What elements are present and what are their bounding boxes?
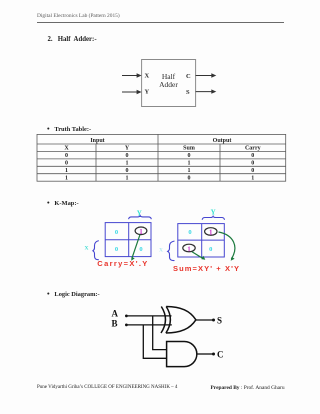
- svg-text:1: 1: [126, 175, 129, 181]
- svg-text:S: S: [186, 89, 190, 96]
- svg-text:Y: Y: [125, 146, 130, 152]
- wire B branch to AND bottom input: [143, 325, 167, 358]
- logic diagram: [105, 303, 230, 373]
- sum group ellipse top-right: [205, 228, 217, 236]
- svg-text:0: 0: [209, 246, 212, 253]
- sum k-map grid: [178, 224, 225, 257]
- AND gate U2: [167, 342, 197, 367]
- output arrow C: [196, 73, 217, 77]
- svg-text:0: 0: [188, 175, 191, 181]
- sum top brace: [202, 216, 224, 220]
- svg-text:Sum=XY' + X'Y: Sum=XY' + X'Y: [173, 264, 240, 273]
- svg-text:0: 0: [188, 229, 191, 236]
- sum cell values: [187, 228, 213, 253]
- svg-text:Carry: Carry: [245, 146, 261, 152]
- svg-text:X: X: [159, 248, 163, 254]
- svg-text:0: 0: [65, 153, 68, 159]
- input arrow X: [122, 73, 142, 77]
- carry group ellipse: [135, 227, 147, 235]
- truth table: [36, 133, 287, 183]
- block diagram: [105, 52, 230, 112]
- svg-text:C: C: [217, 350, 224, 360]
- carry k-map grid: [105, 223, 151, 257]
- wire A branch to AND top input: [153, 316, 167, 350]
- svg-text:Y: Y: [145, 89, 150, 96]
- header text: [37, 13, 120, 19]
- XOR gate U1: [161, 307, 196, 334]
- svg-text:A: A: [112, 308, 119, 318]
- svg-text:0: 0: [251, 168, 254, 174]
- wire AND output to C: [197, 353, 215, 356]
- svg-text:X: X: [145, 73, 150, 80]
- svg-text:Sum: Sum: [183, 146, 195, 152]
- svg-text:0: 0: [139, 246, 142, 253]
- svg-text:1: 1: [251, 175, 254, 181]
- svg-text:0: 0: [251, 153, 254, 159]
- wire A to XOR: [125, 315, 172, 318]
- carry top brace: [129, 216, 152, 220]
- svg-text:X: X: [64, 146, 69, 152]
- svg-text:Adder: Adder: [159, 80, 178, 89]
- wire XOR output to S: [196, 319, 215, 322]
- svg-text:S: S: [217, 316, 222, 326]
- k-map section: [80, 204, 245, 276]
- wire B to XOR: [125, 324, 172, 327]
- input arrow Y: [122, 90, 142, 94]
- svg-text:1: 1: [188, 161, 191, 167]
- svg-text:0: 0: [126, 168, 129, 174]
- bullet Truth Table: [47, 124, 91, 133]
- svg-text:Input: Input: [90, 138, 104, 144]
- output arrow S: [196, 89, 217, 93]
- svg-text:0: 0: [115, 229, 118, 236]
- header rule: [37, 21, 284, 24]
- sum arrow right curved: [219, 232, 235, 261]
- footer left: [37, 385, 177, 390]
- svg-text:1: 1: [126, 161, 129, 167]
- carry arrow: [131, 235, 140, 261]
- sum group ellipse bottom-left: [183, 244, 195, 252]
- section heading 2. Half Adder: [48, 36, 97, 43]
- sum left brace: [168, 241, 175, 261]
- svg-text:X: X: [85, 246, 89, 252]
- svg-text:0: 0: [188, 153, 191, 159]
- svg-text:C: C: [186, 73, 191, 80]
- svg-text:1: 1: [65, 175, 68, 181]
- svg-text:B: B: [112, 318, 118, 328]
- sum arrow left: [192, 252, 205, 260]
- svg-text:0: 0: [251, 161, 254, 167]
- carry cell values: [115, 228, 143, 253]
- footer right: [211, 385, 285, 391]
- bullet K-Map: [47, 198, 79, 207]
- svg-text:Output: Output: [213, 138, 232, 144]
- bullet Logic Diagram: [47, 289, 100, 298]
- carry left brace: [93, 241, 99, 260]
- svg-text:1: 1: [188, 168, 191, 174]
- svg-text:0: 0: [65, 161, 68, 167]
- half adder block U1: [142, 60, 196, 107]
- svg-text:0: 0: [126, 153, 129, 159]
- svg-text:1: 1: [65, 168, 68, 174]
- svg-text:0: 0: [115, 246, 118, 253]
- svg-text:Carry=X'.Y: Carry=X'.Y: [97, 259, 148, 268]
